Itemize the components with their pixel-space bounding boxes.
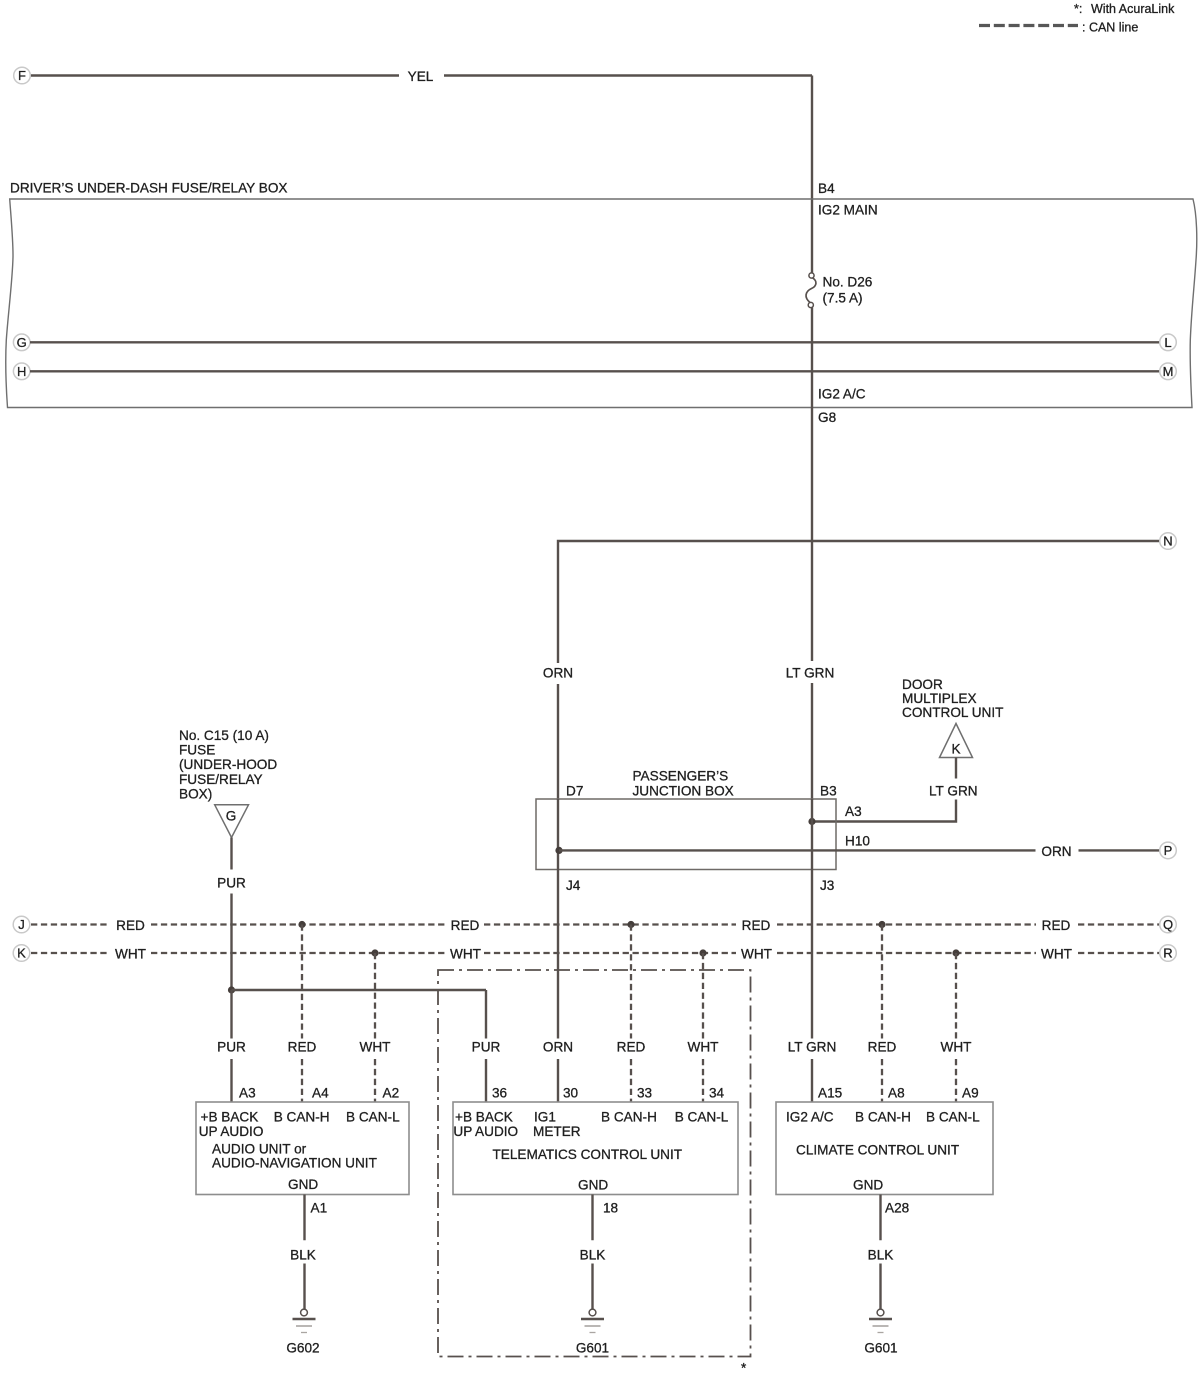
pin A4 [312, 1086, 329, 1101]
telematics control unit box outline [453, 1102, 738, 1195]
wire LT GRN from G8 down to passenger's junction box B3 [811, 308, 813, 801]
svg-text:LT GRN: LT GRN [786, 666, 835, 681]
wire BLK climate ground [879, 1195, 881, 1310]
svg-text:IG2 MAIN: IG2 MAIN [818, 203, 878, 218]
svg-text:DRIVER’S UNDER-DASH FUSE/RELAY: DRIVER’S UNDER-DASH FUSE/RELAY BOX [10, 181, 287, 196]
node K-line dot A2 [371, 949, 378, 956]
svg-text:RED: RED [451, 918, 480, 933]
pin G8 [818, 410, 836, 425]
wire BLK audio ground [303, 1195, 305, 1310]
svg-text:UP AUDIO: UP AUDIO [453, 1124, 518, 1139]
svg-text:G601: G601 [576, 1341, 609, 1356]
label LT GRN climate [788, 1040, 837, 1055]
climate unit name [796, 1143, 959, 1158]
svg-text:ORN: ORN [543, 666, 573, 681]
climate pin names [786, 1110, 980, 1125]
wire from G to L [30, 341, 1160, 343]
label WHT 1 [115, 947, 146, 962]
AcuraLink asterisk [741, 1361, 747, 1376]
svg-text:IG2 A/C: IG2 A/C [786, 1110, 834, 1125]
svg-text:30: 30 [563, 1086, 579, 1101]
wire BLK telematics ground [591, 1195, 593, 1310]
svg-text:ORN: ORN [1041, 844, 1071, 859]
label ORN telematics [543, 1040, 573, 1055]
wire ORN down to junction box D7 [557, 684, 559, 800]
svg-text:JUNCTION BOX: JUNCTION BOX [633, 784, 734, 799]
svg-text:BLK: BLK [290, 1248, 316, 1263]
wire from H to M [30, 370, 1160, 372]
svg-text:A8: A8 [888, 1086, 905, 1101]
page connector triangle K (door multiplex control unit) [940, 724, 973, 758]
label RED 3 [742, 918, 771, 933]
legend asterisk note [1074, 2, 1175, 16]
svg-text:FUSE: FUSE [179, 743, 215, 758]
svg-text:P: P [1164, 843, 1173, 858]
svg-text:*:: *: [1074, 2, 1082, 16]
svg-text:A3: A3 [239, 1086, 256, 1101]
svg-text:WHT: WHT [115, 947, 146, 962]
svg-text:*: * [741, 1361, 747, 1376]
telematics pin names [453, 1110, 728, 1140]
pin A2 [383, 1086, 400, 1101]
pin A3 audio [239, 1086, 256, 1101]
connector M [1160, 363, 1177, 380]
CAN drop 33 dashed [630, 925, 632, 1103]
driver's under-dash fuse/relay box outline [6, 199, 1197, 408]
label G601 telematics [576, 1341, 609, 1356]
pin J4 [566, 878, 581, 893]
svg-text:BLK: BLK [868, 1248, 894, 1263]
label WHT 2 [450, 947, 481, 962]
svg-text:B3: B3 [820, 784, 837, 799]
connector L [1160, 334, 1177, 351]
node J-line dot A4 [298, 921, 305, 928]
svg-text:R: R [1163, 946, 1172, 961]
label BLK audio [290, 1248, 316, 1263]
connector R [1160, 945, 1177, 962]
svg-text:PUR: PUR [217, 1040, 246, 1055]
pin 18 [603, 1201, 618, 1216]
svg-text:F: F [18, 68, 26, 83]
label WHT 3 [741, 947, 772, 962]
pin 34 [709, 1086, 725, 1101]
svg-text:FUSE/RELAY: FUSE/RELAY [179, 772, 263, 787]
svg-text:B CAN-L: B CAN-L [926, 1110, 980, 1125]
svg-text:G: G [226, 809, 237, 824]
label RED 4 [1042, 918, 1071, 933]
wire LT GRN down to climate A15 [811, 870, 813, 1103]
CAN drop A9 dashed [955, 953, 957, 1102]
svg-text:BOX): BOX) [179, 786, 212, 801]
pin B4 [818, 181, 835, 196]
climate control unit box outline [776, 1102, 993, 1195]
pin J3 [820, 878, 834, 893]
wire ORN branch to connector N [558, 541, 1159, 663]
svg-text:34: 34 [709, 1086, 725, 1101]
svg-text:36: 36 [492, 1086, 507, 1101]
svg-text:H: H [17, 364, 26, 379]
pin B3 [820, 784, 837, 799]
svg-text:LT GRN: LT GRN [929, 784, 978, 799]
svg-text:Q: Q [1163, 917, 1173, 932]
svg-text:G601: G601 [864, 1341, 897, 1356]
connector Q [1160, 916, 1177, 933]
pin A28 [885, 1201, 909, 1216]
svg-text:B CAN-H: B CAN-H [274, 1110, 330, 1125]
CAN drop A4 dashed [301, 925, 303, 1103]
node A3 junction dot [808, 818, 815, 825]
wire PUR from triangle G [230, 838, 232, 989]
svg-text:PUR: PUR [472, 1040, 501, 1055]
connector F [14, 67, 31, 84]
svg-text:+B BACK: +B BACK [201, 1110, 259, 1125]
svg-text:B CAN-H: B CAN-H [855, 1110, 911, 1125]
svg-text:YEL: YEL [408, 69, 434, 84]
svg-text:A2: A2 [383, 1086, 400, 1101]
svg-text:GND: GND [853, 1178, 883, 1193]
svg-text:RED: RED [617, 1040, 646, 1055]
svg-text:DOOR: DOOR [902, 677, 943, 692]
connector G [13, 334, 30, 351]
label No. C15 fuse note [179, 728, 277, 801]
svg-text:ORN: ORN [543, 1040, 573, 1055]
label IG2 A/C [818, 387, 866, 402]
label G601 climate [864, 1341, 897, 1356]
ground G601 telematics [581, 1309, 604, 1332]
CAN drop 34 dashed [702, 953, 704, 1102]
svg-text:BLK: BLK [580, 1248, 606, 1263]
passenger's junction box outline [536, 799, 836, 870]
svg-text:IG2 A/C: IG2 A/C [818, 387, 866, 402]
audio GND label [288, 1177, 318, 1192]
label LT GRN at K [929, 784, 978, 799]
connector K [13, 945, 30, 962]
audio unit box outline [196, 1102, 409, 1195]
svg-text:METER: METER [533, 1124, 581, 1139]
label WHT telematics [688, 1040, 719, 1055]
svg-text:RED: RED [1042, 918, 1071, 933]
label PUR audio [217, 1040, 246, 1055]
connector H [13, 363, 30, 380]
svg-text:L: L [1164, 335, 1171, 350]
wire YEL from F to B4 [31, 76, 812, 274]
svg-text:AUDIO UNIT or: AUDIO UNIT or [212, 1142, 307, 1157]
telematics GND label [578, 1178, 608, 1193]
svg-text:J3: J3 [820, 878, 834, 893]
fuse label No. D26 [823, 275, 873, 290]
CAN wire K WHT dashed [31, 952, 1159, 954]
connector P [1160, 842, 1177, 859]
svg-text:GND: GND [578, 1178, 608, 1193]
pin A9 [962, 1086, 979, 1101]
node J-line dot 33 [627, 921, 634, 928]
CAN drop A8 dashed [881, 925, 883, 1103]
fuse label 7.5 A [823, 291, 863, 306]
svg-text:(UNDER-HOOD: (UNDER-HOOD [179, 757, 277, 772]
pin A8 [888, 1086, 905, 1101]
svg-text:(7.5 A): (7.5 A) [823, 291, 863, 306]
svg-text:J: J [18, 917, 25, 932]
label G602 [286, 1341, 319, 1356]
audio unit pin names [199, 1110, 400, 1140]
svg-text:WHT: WHT [1041, 947, 1072, 962]
svg-text:UP AUDIO: UP AUDIO [199, 1124, 264, 1139]
label LT GRN upper [786, 666, 835, 681]
svg-text:A15: A15 [818, 1086, 842, 1101]
pin 30 [563, 1086, 579, 1101]
svg-text:RED: RED [288, 1040, 317, 1055]
svg-text:N: N [1163, 534, 1172, 549]
label DOOR MULTIPLEX CONTROL UNIT [902, 677, 1003, 720]
svg-text:CONTROL UNIT: CONTROL UNIT [902, 705, 1003, 720]
wire ORN from H10 to P [559, 849, 1159, 851]
svg-text:18: 18 [603, 1201, 618, 1216]
svg-text:J4: J4 [566, 878, 581, 893]
wire LT GRN from K triangle to A3 [815, 758, 956, 822]
CAN wire J RED dashed [31, 923, 1159, 925]
pin H10 [845, 834, 870, 849]
svg-text:B CAN-L: B CAN-L [346, 1110, 400, 1125]
label RED climate [868, 1040, 897, 1055]
svg-text:WHT: WHT [360, 1040, 391, 1055]
AcuraLink option dash-dot box [438, 970, 751, 1357]
pin 33 [637, 1086, 652, 1101]
ground G602 [293, 1309, 316, 1332]
svg-text:H10: H10 [845, 834, 870, 849]
svg-text:PUR: PUR [217, 876, 246, 891]
CAN drop A2 dashed [374, 953, 376, 1102]
label BLK telematics [580, 1248, 606, 1263]
connector N [1160, 533, 1177, 550]
node K-line dot 34 [699, 949, 706, 956]
legend CAN line label [1082, 21, 1138, 35]
svg-text:B CAN-H: B CAN-H [601, 1110, 657, 1125]
label IG2 MAIN [818, 203, 878, 218]
svg-text:With AcuraLink: With AcuraLink [1091, 2, 1175, 16]
svg-text:PASSENGER’S: PASSENGER’S [633, 769, 729, 784]
svg-text:AUDIO-NAVIGATION UNIT: AUDIO-NAVIGATION UNIT [212, 1155, 377, 1170]
svg-text:No. C15 (10 A): No. C15 (10 A) [179, 728, 269, 743]
label PUR telematics [472, 1040, 501, 1055]
svg-text:GND: GND [288, 1177, 318, 1192]
wire ORN down to telematics 30 [557, 870, 559, 1103]
label YEL [408, 69, 434, 84]
label DRIVER’S UNDER-DASH FUSE/RELAY BOX [10, 181, 287, 196]
legend CAN line sample [979, 24, 1078, 27]
label RED audio [288, 1040, 317, 1055]
svg-text:No. D26: No. D26 [823, 275, 873, 290]
pin A3 junction box [845, 804, 862, 819]
svg-text:LT GRN: LT GRN [788, 1040, 837, 1055]
label WHT 4 [1041, 947, 1072, 962]
label ORN upper [543, 666, 573, 681]
wire ORN through junction box [557, 799, 559, 870]
fuse No. D26 [806, 273, 816, 308]
label RED 2 [451, 918, 480, 933]
label WHT audio [360, 1040, 391, 1055]
svg-text:M: M [1163, 364, 1174, 379]
pin D7 [566, 784, 583, 799]
svg-text:A3: A3 [845, 804, 862, 819]
svg-text:RED: RED [868, 1040, 897, 1055]
svg-text:IG1: IG1 [534, 1110, 556, 1125]
pin A15 [818, 1086, 842, 1101]
svg-text:: CAN line: : CAN line [1082, 21, 1138, 35]
label BLK climate [868, 1248, 894, 1263]
svg-text:K: K [17, 946, 26, 961]
label RED 1 [116, 918, 145, 933]
svg-text:B4: B4 [818, 181, 835, 196]
node H10 junction dot [555, 847, 562, 854]
climate GND label [853, 1178, 883, 1193]
svg-text:G602: G602 [286, 1341, 319, 1356]
label PUR upper [217, 876, 246, 891]
svg-text:TELEMATICS CONTROL UNIT: TELEMATICS CONTROL UNIT [493, 1147, 683, 1162]
node PUR junction dot [228, 986, 235, 993]
svg-text:D7: D7 [566, 784, 583, 799]
connector J [13, 916, 30, 933]
node K-line dot A9 [952, 949, 959, 956]
label ORN at P [1041, 844, 1071, 859]
telematics unit name [493, 1147, 683, 1162]
svg-text:WHT: WHT [941, 1040, 972, 1055]
svg-text:WHT: WHT [741, 947, 772, 962]
audio unit name [212, 1142, 377, 1171]
svg-text:CLIMATE CONTROL UNIT: CLIMATE CONTROL UNIT [796, 1143, 959, 1158]
pin A1 [311, 1201, 328, 1216]
svg-text:RED: RED [742, 918, 771, 933]
svg-text:B CAN-L: B CAN-L [675, 1110, 729, 1125]
svg-text:+B BACK: +B BACK [455, 1110, 513, 1125]
wire LT GRN through junction box [811, 799, 813, 870]
label PASSENGER’S JUNCTION BOX [633, 769, 734, 799]
svg-text:K: K [951, 742, 960, 757]
svg-text:G: G [17, 335, 27, 350]
ground G601 climate [869, 1309, 892, 1332]
page connector triangle G (fuse C15) [215, 805, 249, 838]
label RED telematics [617, 1040, 646, 1055]
svg-text:A9: A9 [962, 1086, 979, 1101]
pin 36 [492, 1086, 507, 1101]
svg-text:WHT: WHT [688, 1040, 719, 1055]
svg-text:RED: RED [116, 918, 145, 933]
svg-text:33: 33 [637, 1086, 652, 1101]
wire PUR down to audio A3 [230, 990, 232, 1102]
svg-text:MULTIPLEX: MULTIPLEX [902, 691, 977, 706]
wire PUR jumper to telematics [232, 990, 487, 1102]
svg-text:A1: A1 [311, 1201, 328, 1216]
svg-text:A28: A28 [885, 1201, 909, 1216]
svg-text:A4: A4 [312, 1086, 329, 1101]
svg-text:G8: G8 [818, 410, 836, 425]
label WHT climate [941, 1040, 972, 1055]
node J-line dot A8 [878, 921, 885, 928]
svg-text:WHT: WHT [450, 947, 481, 962]
